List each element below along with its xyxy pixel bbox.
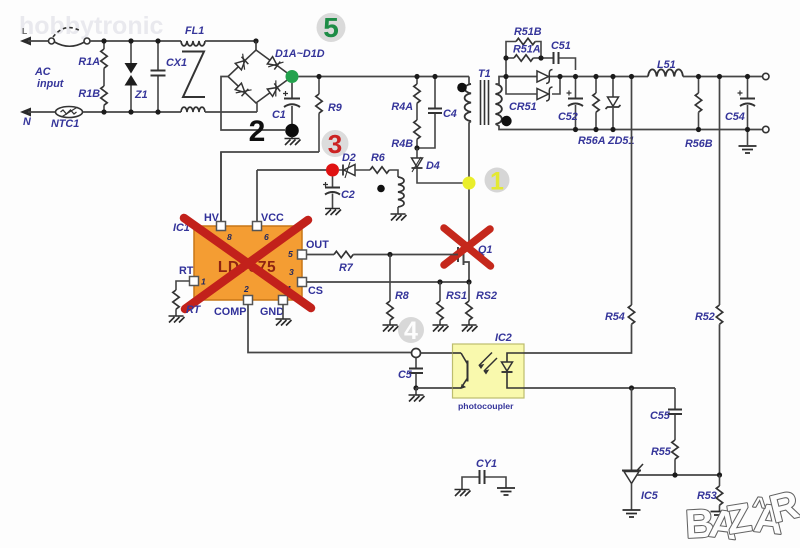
svg-text:L51: L51 <box>657 59 676 71</box>
svg-text:VCC: VCC <box>261 212 284 224</box>
ground IC5 (earth) <box>623 510 641 517</box>
wire <box>205 111 257 113</box>
svg-text:RT: RT <box>186 304 202 316</box>
T1 primary winding <box>465 84 471 121</box>
resistor R4A <box>416 77 418 85</box>
wire rail to primary <box>469 77 471 85</box>
svg-text:RS1: RS1 <box>446 290 467 302</box>
LED of IC2 <box>502 353 525 388</box>
resistor R8 <box>389 255 391 302</box>
diode D4 <box>416 148 418 158</box>
wire ref line <box>637 474 720 476</box>
ground RS1 <box>433 325 449 332</box>
ground aux winding <box>391 214 407 221</box>
T1 secondary polarity dot <box>501 116 511 126</box>
svg-text:C54: C54 <box>725 111 745 123</box>
svg-text:RT: RT <box>179 265 194 277</box>
snubber R51B <box>506 42 516 77</box>
pin 5 OUT <box>298 250 307 259</box>
thermistor NTC1 <box>56 107 83 118</box>
resistor R1A <box>103 41 105 49</box>
capacitor C5 <box>415 358 417 369</box>
wire R6 to aux winding <box>389 170 398 177</box>
svg-text:8: 8 <box>227 232 232 242</box>
svg-text:L: L <box>22 26 27 36</box>
capacitor C2 <box>332 177 334 188</box>
node L (line input terminal arrow) <box>20 37 49 46</box>
wire bottom vertex <box>256 103 258 112</box>
svg-text:FL1: FL1 <box>185 25 204 37</box>
resistor RS2 <box>468 282 470 301</box>
pin 6 VCC <box>256 170 258 222</box>
svg-text:CS: CS <box>308 285 323 297</box>
resistor R9 <box>318 77 320 95</box>
capacitor C4 <box>434 77 436 109</box>
pin 8 HV <box>220 152 222 222</box>
resistor R7 <box>307 254 334 256</box>
T1 primary polarity dot <box>457 83 467 93</box>
wire R9 to HV <box>221 152 319 222</box>
svg-text:C52: C52 <box>558 111 578 123</box>
capacitor C51 <box>541 57 553 59</box>
resistor RT <box>176 281 190 290</box>
svg-text:C4: C4 <box>443 108 457 120</box>
diode D2 upper-right <box>266 55 283 73</box>
svg-text:GND: GND <box>260 306 284 318</box>
wire bottom rail <box>83 111 181 113</box>
svg-text:C51: C51 <box>551 40 571 52</box>
svg-text:R52: R52 <box>695 311 715 323</box>
photocoupler IC2 box <box>453 344 525 398</box>
capacitor CX1 <box>151 41 166 112</box>
node C1 ground dot <box>285 124 299 138</box>
resistor R54 <box>631 77 633 306</box>
wire CR51 lower branch <box>506 77 560 95</box>
transistor Q1 <box>458 225 469 282</box>
svg-text:T1: T1 <box>478 68 491 80</box>
svg-text:R1B: R1B <box>78 88 100 100</box>
svg-text:R56B: R56B <box>685 138 713 150</box>
node yellow dot switch node <box>463 177 476 190</box>
svg-text:IC5: IC5 <box>641 490 659 502</box>
svg-text:R55: R55 <box>651 446 672 458</box>
svg-text:R9: R9 <box>328 102 342 114</box>
node green dot (rectified +) <box>286 70 299 83</box>
wire top rail <box>90 40 181 42</box>
wire secondary bottom <box>496 124 763 130</box>
resistor R1B <box>101 86 107 105</box>
resistor R6 <box>370 167 389 173</box>
ground CY1 left <box>455 490 471 497</box>
ground C2 <box>325 209 341 216</box>
wire after L51 <box>683 76 762 78</box>
svg-text:2: 2 <box>249 115 266 148</box>
svg-text:R1A: R1A <box>78 56 100 68</box>
svg-text:R4A: R4A <box>391 101 413 113</box>
fuse F1 <box>49 28 91 47</box>
capacitor C1 <box>284 83 300 124</box>
wire opto left pins <box>421 352 453 354</box>
svg-text:R53: R53 <box>697 490 717 502</box>
diode D3 lower-left <box>234 82 252 100</box>
wire primary bottom to drain <box>469 121 471 225</box>
node open circle feedback <box>412 349 421 358</box>
svg-text:1: 1 <box>490 168 504 196</box>
ground R8 <box>383 325 399 332</box>
svg-text:D2: D2 <box>342 152 356 164</box>
svg-text:3: 3 <box>289 267 294 277</box>
ground GND pin <box>282 305 284 319</box>
ground C5 <box>415 388 417 395</box>
svg-text:hobbytronic: hobbytronic <box>19 12 164 40</box>
svg-text:CR51: CR51 <box>509 101 537 113</box>
capacitor C55 <box>674 388 676 409</box>
svg-text:NTC1: NTC1 <box>51 118 79 130</box>
transformer T1 aux winding <box>398 177 404 207</box>
svg-text:6: 6 <box>264 232 269 242</box>
svg-text:OUT: OUT <box>306 239 329 251</box>
node red dot VCC <box>326 164 339 177</box>
svg-text:2: 2 <box>243 284 249 294</box>
svg-text:1: 1 <box>201 277 206 287</box>
wire CS line <box>307 281 469 283</box>
marker number 4 <box>398 317 424 343</box>
diode D4 lower-right <box>266 80 283 98</box>
node output terminal - <box>763 126 769 132</box>
resistor R56B <box>698 77 700 94</box>
BAZAR logo <box>684 483 800 548</box>
ground R53 (earth) <box>711 512 729 519</box>
wire DC+ rail <box>299 76 470 78</box>
wire secondary top <box>496 77 649 85</box>
svg-text:R4B: R4B <box>391 138 413 150</box>
junction dots input rails <box>101 38 106 43</box>
wire <box>205 40 256 42</box>
capacitor C52 <box>575 77 577 99</box>
resistor RS1 <box>439 282 441 301</box>
svg-text:IC2: IC2 <box>495 332 512 344</box>
diode D1 upper-left <box>234 54 252 72</box>
T1 secondary winding <box>496 84 502 124</box>
svg-text:RS2: RS2 <box>476 290 497 302</box>
svg-text:CX1: CX1 <box>166 57 187 69</box>
resistor R56A <box>595 77 597 94</box>
capacitor C54 <box>747 77 749 99</box>
svg-text:C1: C1 <box>272 109 286 121</box>
svg-text:R51A: R51A <box>513 44 541 56</box>
svg-text:ZD51: ZD51 <box>607 135 634 147</box>
svg-text:N: N <box>23 116 31 128</box>
ground RT <box>169 316 185 323</box>
svg-text:R51B: R51B <box>514 26 542 38</box>
svg-text:R54: R54 <box>605 311 625 323</box>
svg-text:C2: C2 <box>341 189 355 201</box>
ground C1 <box>291 137 293 139</box>
pin 2 COMP <box>244 296 253 305</box>
phototransistor of IC2 <box>453 353 468 389</box>
marker number 1 <box>485 168 510 193</box>
inductor L51 <box>648 69 683 76</box>
light arrows of IC2 <box>479 353 497 374</box>
svg-text:3: 3 <box>328 129 342 159</box>
resistor R53 <box>719 475 721 486</box>
svg-text:D1A~D1D: D1A~D1D <box>275 48 325 60</box>
svg-text:4: 4 <box>404 317 418 345</box>
svg-text:AC: AC <box>34 66 51 78</box>
svg-text:R6: R6 <box>371 152 386 164</box>
wire COMP to opto <box>248 305 411 353</box>
shunt regulator IC5 <box>631 388 633 470</box>
wire DC minus loop <box>221 77 285 131</box>
svg-text:photocoupler: photocoupler <box>458 401 514 411</box>
svg-text:C55: C55 <box>650 410 671 422</box>
svg-text:CY1: CY1 <box>476 458 497 470</box>
resistor R55 <box>672 440 678 459</box>
svg-text:5: 5 <box>323 12 339 43</box>
ground RS2 <box>462 325 478 332</box>
red X over Q1 <box>444 228 491 266</box>
red X over IC1 <box>184 218 311 309</box>
wire VCC to red dot <box>257 169 327 171</box>
svg-text:HV: HV <box>204 212 220 224</box>
varistor Z1 <box>130 41 132 63</box>
node N (neutral input arrow) <box>20 108 56 117</box>
node output terminal + <box>763 73 769 79</box>
wire opto cathode line <box>524 387 675 389</box>
svg-text:R8: R8 <box>395 290 409 302</box>
svg-text:R7: R7 <box>339 262 354 274</box>
op-amp IC1 LD7575 body <box>194 226 302 300</box>
snubber R51A <box>506 57 514 59</box>
rectifier CR51 lower diode <box>537 87 553 101</box>
svg-text:5: 5 <box>288 249 293 259</box>
zener ZD51 <box>612 77 614 98</box>
resistor R4B <box>414 120 420 139</box>
resistor R52 <box>719 77 721 306</box>
marker number 3 <box>322 130 349 157</box>
rectifier CR51 upper diode <box>537 70 553 84</box>
svg-text:Z1: Z1 <box>134 89 148 101</box>
svg-text:R56A: R56A <box>578 135 606 147</box>
svg-text:C5: C5 <box>398 369 413 381</box>
T1 core <box>481 80 489 125</box>
pin 4 GND <box>279 296 288 305</box>
pin 3 CS <box>298 278 307 287</box>
marker number 5 <box>317 13 346 42</box>
ground CY1 right (earth) <box>497 488 515 495</box>
ground C54 (earth) <box>739 146 757 153</box>
svg-text:D4: D4 <box>426 160 440 172</box>
svg-text:input: input <box>37 78 64 90</box>
svg-text:COMP: COMP <box>214 306 246 318</box>
pin 1 RT <box>190 277 199 286</box>
aux winding polarity dot <box>377 185 385 193</box>
